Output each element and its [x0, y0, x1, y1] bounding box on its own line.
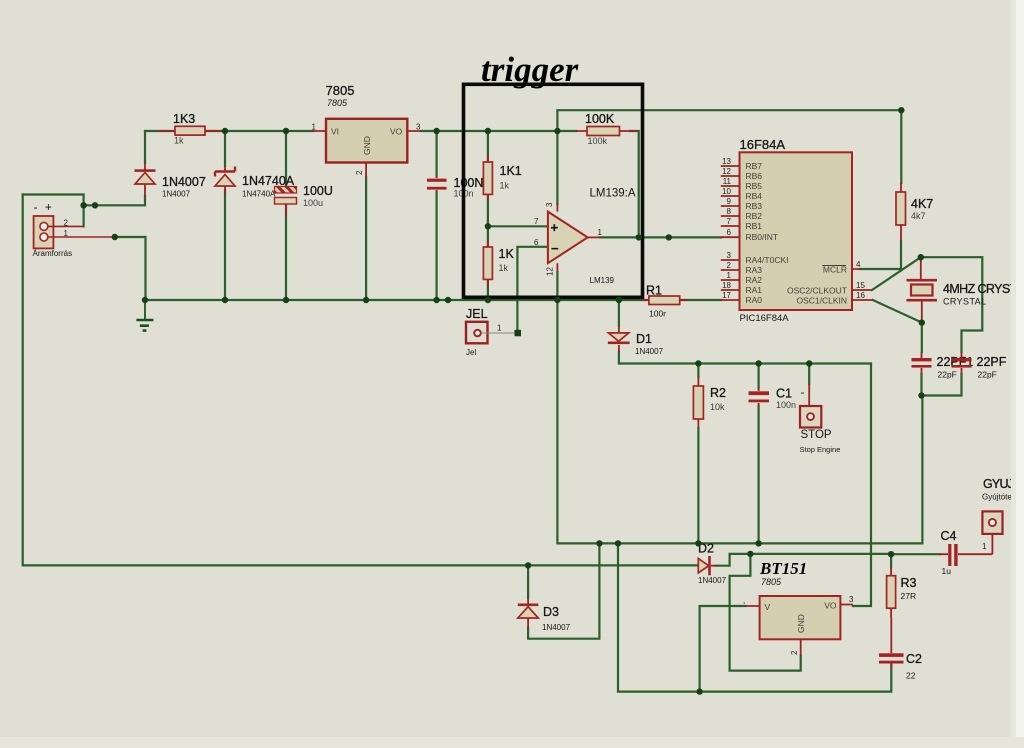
svg-text:2: 2 [727, 261, 732, 270]
svg-text:22pF: 22pF [978, 370, 997, 380]
wire opamp minus input and JEL drop [517, 247, 548, 329]
capacitor 100N [427, 176, 483, 199]
svg-text:+: + [551, 220, 559, 235]
resistor 4K7 [896, 183, 933, 241]
svg-text:7: 7 [727, 217, 732, 226]
svg-text:RA2: RA2 [746, 275, 763, 285]
capacitor C2 [879, 617, 922, 681]
node dots ground rail [142, 297, 622, 303]
wire diode D anode to plus node [84, 196, 145, 205]
wire D2 cathode snake to BT151 pin2 [716, 554, 891, 671]
wire plus terminal loop top-left [23, 195, 84, 227]
diode D1 1N4007 [608, 326, 664, 356]
svg-text:2: 2 [355, 170, 364, 175]
capacitor C4 [940, 527, 992, 576]
svg-text:1k: 1k [174, 136, 184, 146]
svg-text:RB7: RB7 [746, 161, 763, 171]
capacitor 22PF1 left [912, 352, 974, 380]
svg-text:−: − [551, 241, 559, 256]
svg-text:12: 12 [546, 267, 555, 276]
svg-text:1: 1 [727, 271, 732, 280]
svg-text:16F84A: 16F84A [740, 137, 786, 152]
node dot 4K7 top corner [898, 107, 904, 113]
PIC left pin stubs RB7..RB0 [721, 157, 740, 237]
wire STOP branch [808, 364, 810, 385]
node dots mid gnd rail [596, 540, 762, 546]
svg-text:1N4007: 1N4007 [162, 190, 191, 199]
wire zener branch [224, 131, 226, 300]
svg-text:Áramforrás: Áramforrás [33, 249, 73, 258]
thyristor module BT151 [743, 559, 854, 656]
svg-text:100n: 100n [776, 400, 796, 410]
svg-text:2: 2 [790, 650, 799, 655]
resistor 100K pullup [576, 112, 637, 146]
svg-text:100U: 100U [303, 184, 333, 198]
resistor R2 [693, 377, 726, 428]
PIC right pin stubs [852, 260, 873, 300]
svg-text:OSC2/CLKOUT: OSC2/CLKOUT [787, 286, 847, 296]
wire BT151 V pin to gnd [700, 606, 746, 692]
wire opamp output to RB0 [600, 236, 721, 238]
svg-text:1N4007: 1N4007 [635, 347, 664, 356]
svg-text:10k: 10k [710, 402, 725, 412]
wire crystal bottom to 22pF [921, 323, 923, 352]
svg-text:27R: 27R [901, 591, 917, 601]
svg-text:MCLR: MCLR [823, 265, 847, 275]
resistor R1 [641, 284, 688, 319]
svg-text:VO: VO [824, 601, 837, 611]
node dots rail y363 [695, 360, 812, 366]
svg-text:VI: VI [331, 127, 339, 137]
svg-text:Stop Engine: Stop Engine [800, 445, 841, 454]
svg-text:3: 3 [416, 123, 421, 132]
svg-text:JEL: JEL [466, 307, 488, 321]
svg-text:RB5: RB5 [746, 181, 763, 191]
wire 100N branch [436, 131, 438, 300]
button STOP [800, 384, 841, 454]
svg-text:1: 1 [598, 228, 603, 237]
svg-text:RA1: RA1 [746, 285, 763, 295]
svg-text:1N4007: 1N4007 [162, 175, 206, 189]
svg-text:LM139: LM139 [590, 276, 615, 285]
wire OSC1 diagonal [873, 300, 922, 323]
svg-text:Jel: Jel [466, 348, 476, 357]
regulator U 7805 [312, 83, 422, 178]
PIC pin names [746, 161, 848, 306]
node dot bottom rail [696, 688, 702, 694]
svg-text:100K: 100K [585, 112, 615, 126]
svg-text:CRYSTAL: CRYSTAL [943, 297, 986, 307]
svg-text:22: 22 [906, 671, 916, 681]
ground symbol [136, 300, 153, 331]
wire pullup top feedback to 4K7 [557, 110, 901, 183]
svg-text:3: 3 [849, 595, 854, 604]
resistor R3 [887, 567, 917, 617]
svg-text:7805: 7805 [761, 577, 782, 587]
svg-text:100u: 100u [303, 198, 323, 208]
wire 1K3 left drop to diode D [144, 131, 146, 163]
svg-text:4K7: 4K7 [911, 197, 933, 211]
svg-text:10: 10 [722, 187, 731, 196]
svg-text:R3: R3 [901, 576, 917, 590]
svg-text:1: 1 [982, 542, 987, 551]
svg-text:VO: VO [390, 127, 403, 137]
capacitor 22PF right [952, 352, 1007, 380]
zener D 1N4740A [215, 166, 295, 199]
trigger label [481, 50, 579, 89]
wire 7805 pin2 down [365, 177, 367, 300]
node dot divider tap [485, 223, 491, 229]
wire 1K1 divider chain [487, 131, 489, 300]
op-amp U1 LM139:A [534, 188, 636, 286]
edge band right [1011, 0, 1024, 748]
resistor 1K3 [158, 112, 222, 146]
svg-text:GND: GND [362, 136, 372, 155]
svg-text:18: 18 [722, 281, 731, 290]
svg-text:GND: GND [796, 614, 806, 633]
svg-text:-: - [801, 385, 805, 399]
wire gnd long drop and mid rail y=543 [557, 300, 922, 543]
wire D3 branch [528, 543, 599, 638]
svg-text:3: 3 [545, 202, 554, 207]
svg-text:7: 7 [534, 217, 539, 226]
svg-text:RA4/T0CKI: RA4/T0CKI [746, 255, 789, 265]
node dots input rail [222, 128, 561, 134]
svg-text:RB6: RB6 [746, 171, 763, 181]
svg-text:1N4007: 1N4007 [542, 623, 571, 632]
svg-text:100r: 100r [649, 309, 666, 319]
svg-text:RA3: RA3 [746, 265, 763, 275]
wire D1 branch and rail y=363 [619, 300, 871, 364]
svg-text:7805: 7805 [326, 83, 355, 98]
wire left tall minus rail [23, 195, 699, 566]
wire MCLR to 4K7 [860, 241, 901, 269]
diode D3 1N4007 [518, 598, 571, 632]
svg-text:11: 11 [723, 177, 732, 186]
svg-text:1: 1 [312, 123, 317, 132]
wire pin1 terminal to ground corner [115, 237, 146, 300]
svg-text:D1: D1 [636, 332, 652, 346]
svg-text:C4: C4 [941, 529, 957, 543]
svg-text:RB1: RB1 [746, 221, 763, 231]
edge band bottom [0, 737, 1024, 748]
svg-text:BT151: BT151 [759, 559, 807, 578]
svg-text:2: 2 [64, 219, 69, 228]
connector J1 Aramforras [33, 200, 115, 258]
svg-text:R2: R2 [710, 386, 726, 400]
svg-text:RB3: RB3 [746, 201, 763, 211]
svg-text:1k: 1k [499, 263, 509, 273]
svg-text:3: 3 [727, 251, 732, 260]
svg-text:C1: C1 [776, 387, 792, 401]
svg-text:15: 15 [856, 281, 865, 290]
svg-text:,: , [743, 596, 745, 605]
svg-text:RB0/INT: RB0/INT [746, 232, 779, 242]
svg-text:V: V [765, 602, 771, 612]
svg-text:7805: 7805 [327, 98, 348, 108]
node dots plus terminal [80, 202, 118, 240]
svg-text:1K: 1K [499, 247, 515, 261]
svg-text:4k7: 4k7 [911, 211, 926, 221]
svg-text:1N4740A: 1N4740A [242, 174, 295, 188]
wire drop to bottom gnd rail [618, 543, 891, 691]
node dots D2 row [525, 551, 894, 569]
capacitor C1 [749, 385, 805, 410]
node pad JEL [515, 330, 522, 337]
svg-text:16: 16 [856, 291, 865, 300]
svg-text:RA0: RA0 [746, 295, 763, 305]
svg-text:R1: R1 [646, 284, 662, 298]
wire OSC2 diagonal [872, 257, 921, 290]
wire VO riser [853, 364, 871, 607]
resistor 1K [483, 240, 514, 286]
svg-text:1k: 1k [500, 181, 510, 191]
svg-text:9: 9 [727, 197, 732, 206]
capacitor 100U electrolytic [275, 184, 333, 216]
svg-text:- +: - + [34, 200, 54, 214]
wire 5V rail after 7805 [421, 130, 576, 132]
wire opamp V+ pin3 [556, 131, 558, 204]
svg-text:12: 12 [722, 167, 731, 176]
svg-text:C2: C2 [906, 652, 922, 666]
svg-text:LM139:A: LM139:A [590, 188, 636, 200]
connector GYUJT [982, 476, 1024, 534]
svg-text:1N4007: 1N4007 [698, 576, 727, 585]
wire opamp plus input [488, 225, 548, 227]
wire 22pF common junction [922, 374, 962, 396]
node dots crystal [918, 254, 925, 399]
diode D2 1N4007 [698, 542, 727, 586]
svg-text:1: 1 [64, 229, 69, 238]
wire crystal right loop [921, 257, 983, 352]
wire input rail 12V y=131 [145, 130, 313, 132]
wire opamp gnd pin12 [556, 272, 558, 300]
svg-text:1K1: 1K1 [500, 164, 522, 178]
svg-text:17: 17 [722, 291, 731, 300]
svg-text:RB4: RB4 [746, 191, 763, 201]
svg-text:1K3: 1K3 [173, 112, 195, 126]
svg-text:100k: 100k [588, 136, 608, 146]
svg-text:6: 6 [534, 238, 539, 247]
svg-text:OSC1/CLKIN: OSC1/CLKIN [796, 296, 847, 306]
svg-text:8: 8 [727, 207, 732, 216]
connector JEL [466, 307, 515, 357]
wire R3 C4 node [891, 554, 940, 567]
MCU U2 PIC16F84A [740, 137, 853, 324]
resistor 1K1 [483, 155, 521, 200]
node dots opamp output [636, 234, 673, 240]
wire 100K right to output [630, 131, 639, 237]
trigger box [464, 84, 643, 297]
svg-text:13: 13 [722, 157, 731, 166]
svg-text:1: 1 [497, 324, 502, 333]
wire ground rail y=300 [145, 299, 721, 301]
svg-text:1N4740A: 1N4740A [242, 190, 276, 199]
PIC left pin stubs RA [721, 251, 740, 300]
diode D 1N4007 (input series) [135, 163, 206, 199]
svg-text:RB2: RB2 [746, 211, 763, 221]
wire R2 branch [697, 364, 699, 544]
svg-text:STOP: STOP [801, 429, 832, 441]
svg-text:22pF: 22pF [938, 370, 957, 380]
crystal X1 4MHZ [907, 257, 1024, 322]
svg-text:PIC16F84A: PIC16F84A [740, 313, 790, 324]
svg-text:D3: D3 [543, 605, 559, 619]
svg-text:1u: 1u [942, 566, 952, 576]
wire C1 branch [757, 364, 759, 544]
svg-text:6: 6 [727, 228, 732, 237]
wire 100U branch [285, 131, 287, 300]
svg-text:22PF: 22PF [977, 355, 1007, 369]
svg-text:4: 4 [856, 260, 861, 269]
